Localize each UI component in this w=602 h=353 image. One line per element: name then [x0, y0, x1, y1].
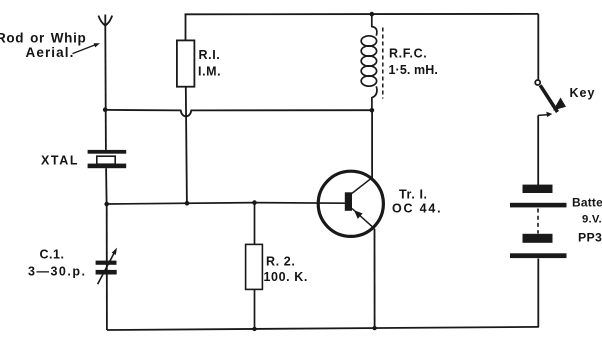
- label Rod or Whip Aerial with leader arrow: [0, 31, 100, 61]
- battery B1: [510, 185, 567, 259]
- inductor RFC: [361, 14, 383, 110]
- variable capacitor C1: [96, 248, 117, 285]
- svg-text:R.I.: R.I.: [199, 48, 221, 62]
- antenna aerial: [98, 15, 112, 26]
- wire antenna to node A: [104, 26, 106, 110]
- base wire node B to transistor base: [107, 203, 255, 204]
- svg-text:Tr. I.: Tr. I.: [399, 188, 428, 202]
- junction dot emitter-rail: [372, 326, 376, 330]
- svg-text:100. K.: 100. K.: [264, 270, 309, 284]
- wire emitter to bottom rail: [374, 229, 376, 328]
- wire crystal to node B: [105, 168, 108, 204]
- wire key to battery: [537, 115, 539, 185]
- bottom rail wire: [107, 327, 539, 330]
- svg-text:R.F.C.: R.F.C.: [389, 47, 427, 61]
- label R2 value: [264, 255, 309, 285]
- svg-text:R. 2.: R. 2.: [266, 255, 295, 269]
- svg-text:Batte: Batte: [572, 195, 602, 209]
- svg-text:Aerial.: Aerial.: [26, 45, 75, 60]
- svg-text:9.V.: 9.V.: [582, 214, 602, 226]
- right rail upper wire: [537, 14, 539, 80]
- junction dot RFC bottom: [370, 108, 375, 113]
- svg-text:PP3: PP3: [578, 230, 602, 244]
- label RFC value: [389, 47, 438, 77]
- label Tr1 type: [392, 188, 442, 216]
- junction dot top rail RFC: [370, 12, 375, 17]
- wire node B to bottom rail through C1: [106, 204, 108, 330]
- wire battery to bottom rail: [537, 259, 539, 328]
- node B junction dot: [104, 202, 109, 207]
- svg-text:3—30.p.: 3—30.p.: [28, 264, 86, 278]
- node A junction dot: [103, 107, 108, 112]
- wire RFC junction to collector: [371, 110, 373, 177]
- label battery: [572, 195, 602, 244]
- label C1 value: [28, 247, 86, 278]
- resistor R1: [177, 14, 195, 203]
- wire node A to RFC bottom with hop over R1 lead: [105, 110, 372, 116]
- junction dot R2-base: [252, 200, 257, 205]
- label R1 value: [198, 48, 221, 78]
- wire node A down to crystal: [105, 110, 107, 150]
- junction dot R1-base: [185, 201, 190, 206]
- svg-text:Key: Key: [570, 86, 596, 100]
- svg-text:OC 44.: OC 44.: [392, 201, 442, 215]
- svg-text:1·5. mH.: 1·5. mH.: [389, 63, 438, 77]
- svg-text:I.M.: I.M.: [198, 64, 221, 78]
- svg-text:XTAL: XTAL: [41, 154, 79, 168]
- svg-text:Rod or Whip: Rod or Whip: [0, 31, 86, 46]
- key switch: [535, 80, 566, 117]
- top rail wire: [185, 13, 539, 15]
- crystal XTAL: [88, 150, 127, 168]
- svg-text:C.1.: C.1.: [40, 247, 65, 261]
- junction dot R2-rail: [252, 327, 256, 331]
- resistor R2: [246, 203, 263, 329]
- transistor Tr1: [318, 171, 383, 236]
